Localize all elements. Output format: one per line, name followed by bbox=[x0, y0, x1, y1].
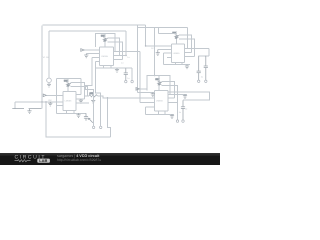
ground under V1 bbox=[47, 84, 51, 87]
IC4 left pin 1 bbox=[138, 92, 155, 94]
terminal out2a bbox=[198, 80, 200, 82]
IC1 wrap2 bbox=[107, 38, 119, 55]
node flag IN3 bbox=[43, 94, 46, 97]
node A bbox=[41, 101, 43, 103]
IC3 bottom wire bbox=[57, 112, 87, 114]
ground on IC4 pin1 wire bbox=[151, 93, 155, 97]
wire IC2 out hook bbox=[185, 47, 210, 49]
svg-text:10K: 10K bbox=[48, 99, 52, 102]
IC2 left pin 2 bbox=[158, 49, 172, 51]
IC1 right pin stubs bbox=[114, 50, 115, 52]
IC1 left pin 1 bbox=[84, 49, 100, 51]
terminal out1a bbox=[125, 80, 127, 82]
IC2 wrap3 bbox=[179, 39, 195, 57]
IC2 left pin 1 bbox=[146, 45, 172, 47]
potentiometer R1 bbox=[101, 35, 108, 42]
terminal out4b bbox=[182, 120, 184, 122]
IC1 wrap loop bbox=[95, 34, 115, 52]
pot wire top bbox=[159, 33, 177, 34]
pot arrow mark bbox=[89, 118, 93, 123]
IC2 left pin 4 bbox=[167, 57, 172, 59]
ground on IC4 bottom wire bbox=[170, 114, 174, 118]
svg-text:LM555: LM555 bbox=[101, 55, 108, 58]
svg-text:http://circuitlab.com/c/59987u: http://circuitlab.com/c/59987u bbox=[57, 158, 101, 162]
terminal out4a bbox=[176, 120, 178, 122]
IC4 bottom pins bbox=[158, 111, 160, 114]
ground on IC2 pin2 bbox=[156, 50, 160, 56]
voltage source V1 bbox=[47, 31, 52, 84]
IC3 left pin 3 ground bbox=[48, 102, 52, 106]
wire staircase 2 bbox=[96, 62, 101, 127]
wire CV drop bbox=[125, 31, 127, 55]
ground below battery bbox=[27, 109, 31, 114]
wire staircase from IC1 bus bbox=[86, 57, 94, 126]
capacitor C4 out bbox=[181, 100, 185, 120]
IC3 wrap3 bbox=[71, 86, 88, 96]
IC4 wrap loop bbox=[147, 76, 170, 95]
ground under resistor bbox=[91, 100, 95, 103]
ground on IC4 out wire bbox=[183, 94, 187, 98]
node junction bbox=[107, 97, 109, 99]
IC1 bottom pins bbox=[103, 66, 105, 69]
IC4 wrap3 bbox=[162, 85, 178, 102]
op-amp IC4 (555) bbox=[155, 91, 169, 112]
svg-text:LM555: LM555 bbox=[173, 52, 180, 55]
IC2 bottom wire bbox=[163, 64, 190, 66]
resistor R7 bbox=[89, 92, 98, 97]
terminal node out3a bbox=[92, 126, 94, 128]
IC4 wrap2 bbox=[162, 82, 175, 99]
pot stubs bbox=[104, 34, 106, 38]
IC3 bottom pins bbox=[66, 111, 68, 114]
capacitor C2 bbox=[197, 56, 201, 80]
IC2 bottom pins bbox=[175, 63, 177, 65]
IC1 left pin 3 bbox=[92, 56, 100, 58]
logo LAB box bbox=[37, 159, 50, 163]
wire bottom rail bbox=[46, 102, 111, 137]
potentiometer R2 bbox=[173, 32, 180, 39]
terminal out1b bbox=[131, 80, 133, 82]
IC4 left pin 4 bbox=[146, 106, 155, 108]
pot stubs bbox=[67, 79, 69, 83]
IC3 left pin 1 bbox=[46, 94, 63, 96]
capacitor C1 out bbox=[124, 68, 128, 80]
op-amp IC2 (555) bbox=[172, 44, 185, 63]
IC2 right pin stubs bbox=[185, 51, 192, 53]
IC3 left pin 4 bbox=[57, 105, 64, 107]
IC1 wrap3 bbox=[107, 42, 122, 60]
ground on IC1 pin2 bbox=[84, 54, 88, 58]
wiper flag wire IC4 bbox=[139, 88, 147, 90]
IC1 bottom wire bbox=[96, 67, 132, 69]
wire IC1 out to IC4 input bbox=[139, 51, 141, 102]
IC4 right pin stubs bbox=[168, 93, 187, 95]
IC3 right pin stubs bbox=[76, 93, 81, 95]
wire resistor to IC4 input bbox=[84, 95, 89, 97]
wire vertical feed to IC4 bbox=[137, 25, 139, 93]
wire battery feed bbox=[14, 102, 16, 109]
wire battery rail link bbox=[15, 101, 63, 103]
wire long input to IC4 bbox=[107, 97, 154, 99]
IC1 left pin 2 bbox=[86, 53, 99, 55]
IC3 wrap2 bbox=[71, 83, 85, 100]
wire top rail bbox=[43, 24, 146, 26]
terminal node out3b bbox=[100, 126, 102, 128]
terminal out2b bbox=[205, 80, 207, 82]
IC4 left pin 3 bbox=[140, 101, 155, 103]
svg-text:LAB: LAB bbox=[39, 158, 47, 163]
wire IC1 out right bbox=[115, 50, 140, 52]
wire CV rail bbox=[49, 30, 126, 32]
op-amp IC3 (555) bbox=[63, 92, 76, 111]
ground on IC3 pin2 wire bbox=[79, 99, 83, 103]
pot stubs bbox=[158, 76, 160, 82]
potentiometer R3 bbox=[64, 80, 71, 87]
IC2 wrap2 bbox=[179, 35, 191, 52]
wire top rail 2 (IC2 outer loop) bbox=[145, 25, 147, 46]
IC1 left pin 4 bbox=[96, 61, 100, 63]
wire to terminal out1b bbox=[131, 68, 133, 80]
node flag pin1 bbox=[81, 49, 84, 52]
battery cell 1 bbox=[12, 108, 24, 110]
footer bar bbox=[0, 153, 220, 165]
wire IC4 out right bbox=[168, 92, 210, 100]
ground on IC3 bottom wire bbox=[76, 113, 80, 117]
potentiometer R4 bbox=[156, 78, 163, 85]
IC2 left pin 3 bbox=[163, 52, 171, 54]
battery cell 2 bbox=[29, 108, 42, 110]
capacitor C3 bbox=[84, 113, 88, 121]
IC4 bottom wire bbox=[146, 113, 174, 115]
svg-text:LM555: LM555 bbox=[156, 100, 163, 103]
logo resistor zigzag bbox=[15, 160, 31, 162]
ground on IC2 bottom wire bbox=[185, 65, 189, 69]
wire return loop down bbox=[107, 98, 110, 137]
capacitor C2b bbox=[204, 56, 208, 80]
wire vertical feed to IC4 wrap bbox=[154, 28, 156, 76]
op IC3 wrap loop bbox=[57, 78, 81, 80]
op-amp IC1 (555) bbox=[100, 47, 114, 66]
svg-text:LM555: LM555 bbox=[65, 100, 72, 103]
wire wrap3 down to terminal bbox=[177, 102, 179, 120]
ground on IC1 bottom wire bbox=[115, 68, 119, 72]
wire left rail bbox=[41, 26, 43, 109]
svg-text:V1 5V: V1 5V bbox=[43, 56, 49, 59]
